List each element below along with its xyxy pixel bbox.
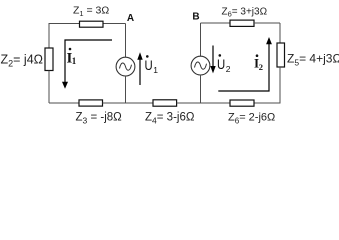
wire: right vertical below Z5 [254,67,280,103]
wire: bottom right loop, left of Z6b [201,102,231,104]
resistor Z4 (bottom middle) [153,100,177,106]
voltage arrow U1 (up) [139,58,141,85]
wire: left vertical above Z2 [48,23,50,48]
wire: right loop top, left of Z6 [201,22,231,24]
wire: left loop top, right of Z1 [103,23,126,25]
wire: left vertical below Z2 [48,71,50,104]
resistor Z2 [45,48,53,71]
wire: bottom left segment [49,102,79,104]
wire: B branch upper [200,23,202,56]
svg-text:B: B [192,12,199,23]
wire: right loop top, right of Z6 [254,22,280,24]
svg-text:1: 1 [72,56,77,66]
wire: left loop top, left of Z1 [49,23,80,25]
source U1 sine [120,63,132,70]
resistor Z6 top [230,20,254,26]
current arrow I2 (L-shaped, arrowhead up) [218,43,269,92]
svg-text:A: A [127,13,134,24]
resistor Z1 [80,21,104,27]
resistor Z6 bottom right [230,100,254,106]
wire: B branch lower [200,75,202,103]
current arrow I1 (L-shaped, arrowhead down) [65,40,112,83]
svg-text:Z2= j4Ω: Z2= j4Ω [1,53,44,69]
source U2 circle [191,56,210,75]
resistor Z5 right [277,43,285,67]
resistor Z3 [79,100,103,106]
wire: bottom between Z3 and node A branch [103,102,154,104]
source U1 circle [116,57,135,76]
svg-text:2: 2 [259,62,263,72]
svg-text:U: U [217,57,225,72]
source U2 sine [195,62,207,69]
wire: right vertical above Z5 [279,23,281,43]
svg-text:1: 1 [153,65,158,75]
wire: A branch lower [125,76,127,103]
svg-text:U: U [145,58,153,73]
svg-text:Z3 = -j8Ω: Z3 = -j8Ω [76,112,123,126]
svg-text:2: 2 [226,64,231,74]
wire: A branch upper [125,24,127,58]
wire: bottom between Z4 and B branch [177,102,230,104]
svg-text:Z1 = 3Ω: Z1 = 3Ω [73,5,109,19]
voltage arrow U2 (down) [212,46,214,68]
